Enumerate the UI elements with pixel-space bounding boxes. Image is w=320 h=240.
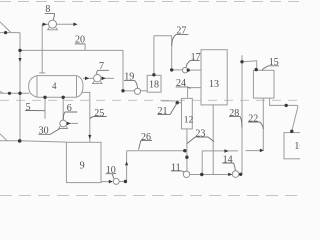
underline 21: [157, 104, 176, 115]
pump 14 wires: [229, 173, 240, 175]
wire box18 top riser: [153, 36, 155, 76]
wire pump7 outlet: [101, 77, 114, 79]
underline 19: [124, 80, 138, 88]
wire vessel right head to line 25: [81, 92, 90, 137]
wire 28 vertical: [241, 62, 243, 174]
pump 8: [49, 20, 57, 28]
underline 30: [38, 129, 59, 135]
vessel 4 right head: [77, 76, 84, 98]
wire vertical x20: [19, 33, 21, 141]
pump 8 base: [48, 28, 58, 30]
dot wire9 corner: [18, 139, 22, 143]
svg-text:22: 22: [248, 113, 258, 124]
wire stub 21: [177, 102, 181, 104]
svg-text:19: 19: [124, 72, 134, 83]
vessel 4 left head: [29, 76, 37, 98]
box 16: [284, 133, 302, 159]
svg-text:30: 30: [39, 126, 49, 137]
underline 10: [106, 174, 117, 179]
arrow wire150 into 22: [260, 149, 264, 153]
wire into box9 from left: [0, 141, 66, 142]
arrow pump14 inlet: [228, 173, 232, 177]
arrow pump8 outlet tip: [73, 23, 77, 27]
svg-text:10: 10: [106, 165, 116, 176]
arrow pump7 inlet: [85, 77, 89, 81]
pump 17: [182, 68, 187, 73]
wire slant into box16: [292, 105, 298, 130]
underline 7: [97, 70, 109, 74]
pump 14: [232, 171, 239, 178]
arrow up riser26: [125, 161, 128, 165]
svg-text:15: 15: [269, 57, 279, 68]
dot pump11 riser: [185, 156, 188, 159]
underline 26: [139, 140, 153, 149]
box 13: [201, 50, 227, 105]
junction dots and arrows: [4, 23, 293, 184]
wire line25 into box9: [89, 137, 91, 142]
arrow pump10 inlet: [109, 180, 113, 184]
wire box13 drain x213.8: [212, 105, 214, 175]
svg-text:9: 9: [80, 160, 85, 171]
dot 21: [176, 101, 179, 104]
dot pump11 outlet riser: [200, 173, 203, 176]
svg-text:13: 13: [209, 79, 219, 90]
dot pump17 outlet: [187, 69, 190, 72]
svg-text:5: 5: [26, 102, 31, 113]
wire feed diagonal bottom-left: [0, 134, 7, 141]
underline 24: [176, 87, 191, 89]
box 15: [253, 70, 274, 98]
dot pump10 outlet: [124, 180, 127, 183]
arrow pump7 outlet: [102, 77, 106, 81]
pump 7: [94, 75, 101, 82]
vessel 4 shell: [37, 76, 77, 98]
arrow wire150: [224, 149, 228, 153]
wire vessel drain to pump30: [62, 97, 64, 120]
wire 26: [127, 150, 187, 152]
underline 14: [222, 163, 235, 170]
pump 7 base: [93, 81, 102, 83]
svg-text:21: 21: [158, 106, 168, 117]
dot pump14 outlet: [239, 173, 242, 176]
wire feed diagonal top-left: [0, 22, 11, 33]
pump 10: [113, 178, 119, 184]
svg-text:14: 14: [223, 154, 233, 165]
underline 5: [25, 110, 45, 112]
wire riser x126: [126, 151, 128, 182]
svg-text:16: 16: [294, 141, 300, 152]
underline 22: [248, 122, 263, 129]
underline 27: [172, 34, 189, 45]
dot box18 top: [152, 73, 155, 76]
wire box12 drain down to pump11: [186, 129, 188, 171]
dot box15 top inlet: [255, 68, 258, 71]
wire box15 right drain: [270, 98, 298, 105]
wire pump30 outlet: [67, 122, 78, 124]
underline 8: [45, 14, 55, 20]
arrow down x20: [18, 58, 21, 62]
dashed border bottom: [0, 195, 300, 197]
wire riser x202: [201, 151, 203, 175]
wire pump17 outlet into box13: [188, 69, 201, 71]
underlines and leaders: [25, 14, 279, 179]
svg-text:12: 12: [184, 115, 194, 125]
box 18: [147, 75, 161, 92]
dot 26 junction: [183, 149, 186, 152]
wire 150 horizontal seg1: [202, 150, 238, 152]
wire into pump 17: [172, 69, 183, 71]
dash 21 darker: [162, 100, 176, 102]
wire pump7 inlet: [83, 77, 94, 79]
arrow pump8 inlet: [43, 23, 47, 27]
wire feed top-left: [0, 32, 20, 34]
box 9: [66, 142, 101, 182]
svg-text:23: 23: [195, 128, 205, 139]
underline 20: [75, 43, 86, 45]
wire label-20 riser: [84, 44, 86, 51]
wire 28 stub top: [241, 55, 243, 62]
dot vessel drain30: [62, 96, 65, 99]
svg-text:11: 11: [171, 162, 181, 173]
dashed border top: [0, 1, 300, 3]
wire 150 horizontal seg2: [246, 150, 262, 152]
underline 25: [90, 117, 107, 119]
wire into box15 top: [242, 61, 257, 71]
dot vessel drain5: [43, 96, 46, 99]
pump 30: [60, 120, 67, 127]
dashed border middle: [0, 99, 300, 101]
wire pump11 outlet: [190, 174, 230, 176]
arrow down line25: [88, 135, 91, 139]
svg-text:6: 6: [67, 103, 72, 114]
svg-text:25: 25: [94, 108, 104, 119]
dot junction 28 top: [240, 60, 243, 63]
wire pump8 inlet: [42, 23, 48, 25]
wire pump10 outlet: [119, 181, 125, 183]
wire pump19 outlet into box18: [141, 90, 148, 92]
wire box9 to pump10: [101, 181, 110, 183]
underline 28: [229, 116, 242, 127]
underline 6: [63, 112, 77, 120]
svg-text:28: 28: [229, 108, 239, 119]
underline 23: [187, 137, 214, 144]
dot box16 top: [290, 130, 293, 133]
pump circles: [49, 20, 239, 184]
dot pump19 corner: [121, 89, 124, 92]
wire vessel drain 5: [44, 97, 46, 119]
wire 24 from box13 to box12: [188, 88, 201, 99]
wire 20 horizontal: [20, 49, 123, 51]
svg-text:4: 4: [52, 81, 57, 91]
arrow pump30 outlet: [67, 122, 71, 126]
wire pump8 riser from vessel: [41, 24, 43, 73]
svg-text:26: 26: [141, 132, 151, 143]
underline 11: [171, 171, 185, 172]
dot left feed b: [18, 92, 21, 95]
underline 15: [262, 66, 279, 70]
pump 11: [183, 171, 189, 177]
wire bridge 27: [154, 36, 172, 70]
wire 22 below box15: [262, 98, 264, 150]
svg-text:17: 17: [191, 52, 201, 63]
dot top-left feed: [4, 31, 7, 34]
wire pump8 outlet: [56, 23, 74, 25]
dot wire20 start: [18, 49, 21, 52]
wire drop to pump 19: [122, 50, 124, 90]
dot box15 right drain: [285, 104, 288, 107]
wire pump19 inlet: [123, 90, 134, 92]
wire feed left middle: [0, 92, 29, 94]
pump 30 base: [59, 126, 68, 128]
pump bases: [48, 28, 102, 129]
dot corner 17: [170, 68, 173, 71]
underline 17: [186, 60, 200, 67]
dot left feed a: [8, 92, 11, 95]
svg-text:18: 18: [149, 80, 159, 91]
pump 19: [134, 88, 140, 94]
flange tick vessel top nozzle: [39, 72, 45, 74]
box 12: [182, 98, 193, 128]
wire feed left middle diagonal: [0, 91, 3, 93]
